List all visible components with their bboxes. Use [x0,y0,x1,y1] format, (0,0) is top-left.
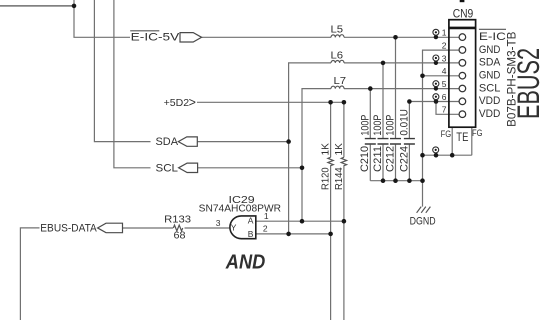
svg-text:0.01U: 0.01U [399,109,411,136]
svg-text:C224: C224 [398,146,410,172]
svg-text:100P: 100P [385,115,397,136]
svg-text:C210: C210 [359,146,371,172]
svg-text:1K: 1K [321,143,332,156]
svg-text:A: A [248,216,254,226]
svg-text:4: 4 [442,66,447,76]
svg-text:SN74AHC08PWR: SN74AHC08PWR [199,203,281,214]
svg-text:B: B [248,229,254,239]
svg-text:SDA: SDA [479,57,501,69]
svg-text:E-IC: E-IC [479,31,506,43]
svg-text:Y: Y [231,222,237,232]
svg-text:R120: R120 [320,167,332,190]
svg-text:2: 2 [442,41,447,51]
svg-text:SCL: SCL [479,82,501,94]
svg-text:C211: C211 [372,146,384,172]
svg-text:3: 3 [216,218,221,228]
svg-text:R133: R133 [164,215,191,226]
svg-text:L5: L5 [331,25,344,36]
svg-text:100P: 100P [359,115,371,136]
svg-text:C212: C212 [384,146,396,172]
svg-text:TE: TE [456,130,468,144]
svg-text:EBUS-DATA: EBUS-DATA [40,223,97,235]
svg-text:AND: AND [225,252,265,274]
svg-text:FG: FG [472,128,483,138]
svg-text:7: 7 [442,105,447,115]
svg-text:DGND: DGND [410,215,436,227]
svg-text:L6: L6 [331,50,344,61]
svg-text:2: 2 [263,224,268,234]
svg-text:1: 1 [264,211,269,221]
svg-text:3: 3 [442,53,447,63]
svg-text:VDD: VDD [479,108,501,120]
svg-text:E-IC-5V: E-IC-5V [131,32,180,44]
svg-text:CN9: CN9 [453,8,474,20]
svg-text:1: 1 [442,28,447,38]
svg-text:GND: GND [479,70,501,82]
svg-text:68: 68 [174,230,186,241]
svg-text:>: > [189,96,196,110]
svg-text:6: 6 [442,92,447,102]
svg-text:GND: GND [479,44,501,56]
svg-text:FG: FG [441,129,452,139]
svg-text:VDD: VDD [479,95,501,107]
svg-text:100P: 100P [372,115,384,136]
svg-text:EBUS2: EBUS2 [510,48,546,119]
svg-text:L7: L7 [334,76,347,87]
svg-text:SDA: SDA [156,136,179,148]
svg-text:+5D2: +5D2 [164,97,190,109]
svg-text:SCL: SCL [156,162,179,174]
svg-text:R144: R144 [333,167,345,190]
svg-text:5: 5 [442,79,447,89]
svg-text:1K: 1K [334,143,345,156]
